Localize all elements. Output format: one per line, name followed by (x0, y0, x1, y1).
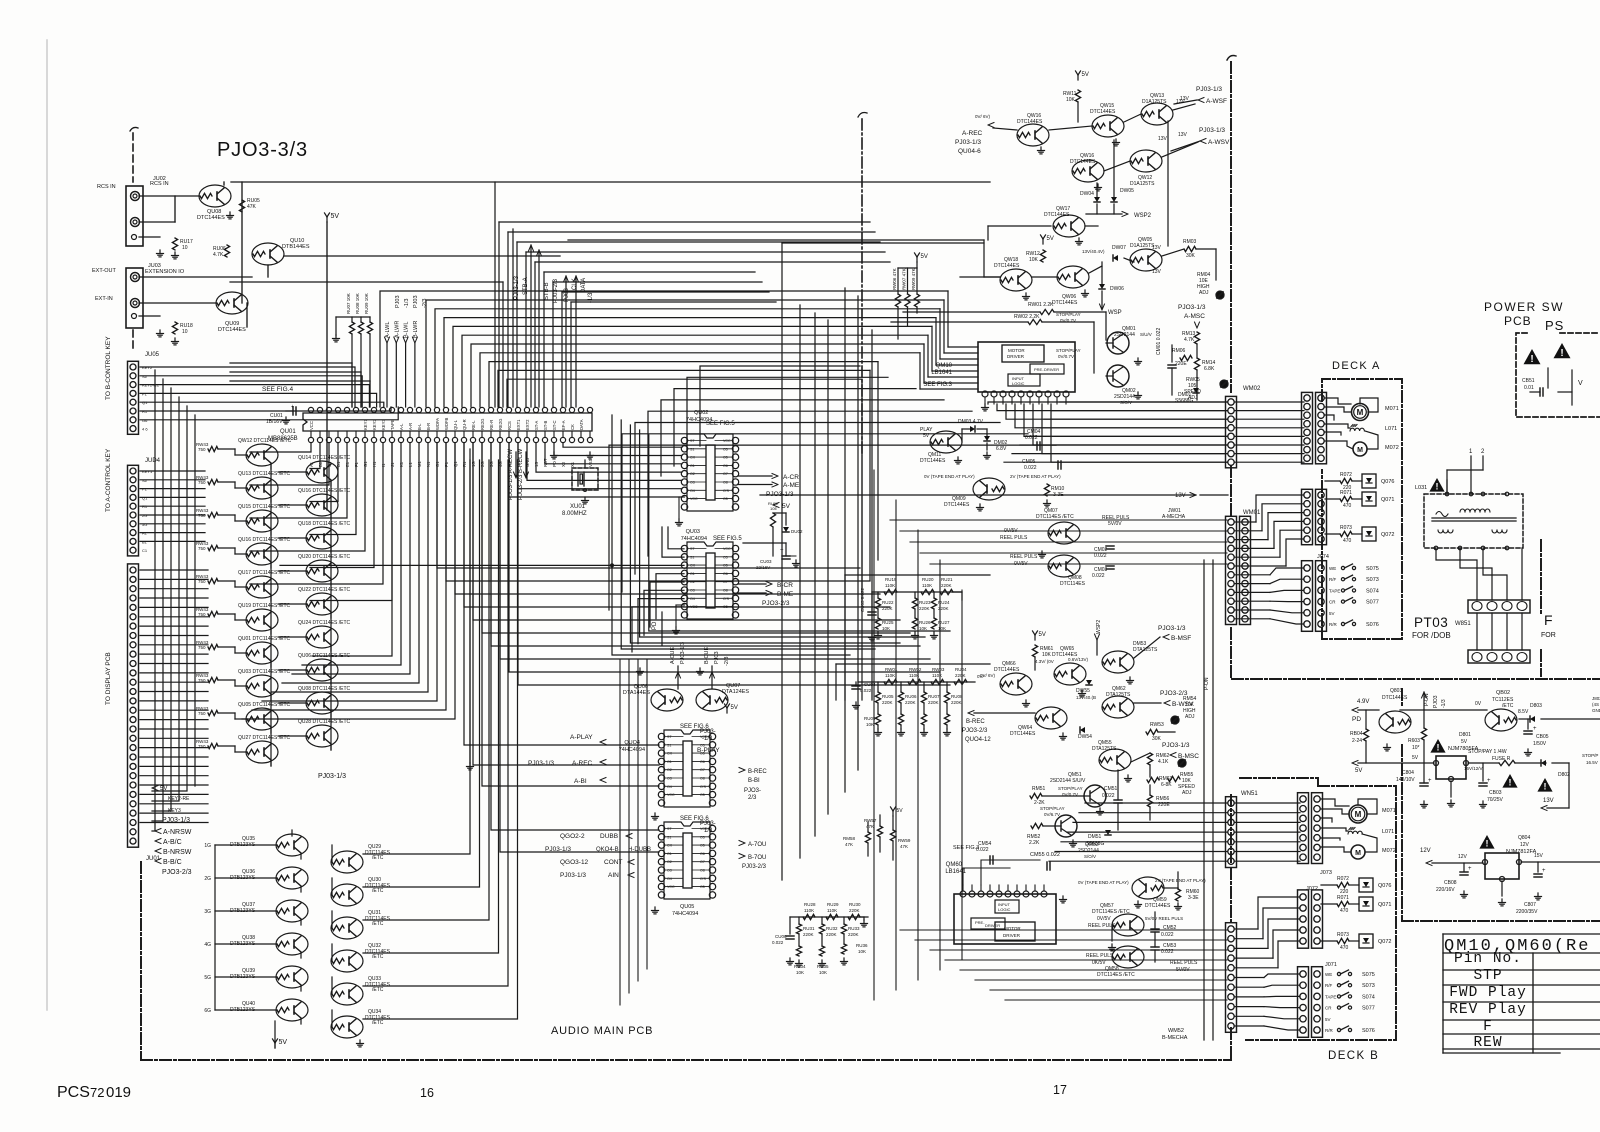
svg-text:STOP/PLAY: STOP/PLAY (1058, 786, 1083, 791)
svg-text:220K: 220K (928, 700, 939, 705)
svg-text:5V: 5V (1325, 1017, 1331, 1022)
svg-text:D801: D801 (1459, 732, 1471, 738)
svg-text:!: ! (1544, 782, 1547, 792)
svg-text:O6: O6 (723, 572, 728, 576)
svg-text:A-BI: A-BI (574, 778, 587, 785)
svg-text:DU02: DU02 (791, 529, 803, 534)
svg-text:Q071: Q071 (1381, 497, 1394, 503)
svg-text:DTC144ES: DTC144ES (1070, 159, 1096, 165)
svg-text:REEL PULS: REEL PULS (1010, 554, 1038, 560)
svg-text:ST-C: ST-C (552, 420, 557, 430)
svg-text:PCS: PCS (57, 1084, 90, 1101)
svg-text:10K: 10K (1042, 652, 1052, 658)
svg-text:DATA: DATA (579, 419, 584, 430)
svg-text:SEE FIG.3: SEE FIG.3 (923, 382, 952, 388)
svg-text:72: 72 (90, 1085, 104, 1100)
svg-text:WDFA: WDFA (435, 418, 440, 430)
svg-text:B-LWL: B-LWL (404, 322, 410, 338)
svg-text:4.7K: 4.7K (1184, 337, 1195, 343)
svg-text:750: 750 (198, 711, 206, 716)
svg-text:RU30: RU30 (849, 902, 861, 907)
svg-text:RW02 2.2K: RW02 2.2K (1014, 314, 1040, 320)
svg-text:5V: 5V (279, 1039, 288, 1046)
svg-text:DTC144ES: DTC144ES (944, 502, 970, 508)
svg-text:QM60: QM60 (946, 862, 963, 868)
svg-text:4.7K: 4.7K (213, 252, 224, 258)
svg-text:S073: S073 (1362, 983, 1375, 989)
svg-text:DTC114ES /ETC: DTC114ES /ETC (1036, 514, 1074, 520)
svg-text:ADJ: ADJ (1182, 790, 1192, 796)
svg-text:!: ! (1437, 743, 1440, 753)
svg-text:RW59: RW59 (898, 838, 911, 843)
svg-text:TAPE: TAPE (1325, 994, 1336, 999)
svg-text:220K: 220K (951, 700, 962, 705)
svg-text:10K: 10K (866, 722, 874, 727)
svg-text:1B/16V: 1B/16V (266, 419, 283, 425)
svg-text:S1: S1 (667, 835, 671, 839)
svg-text:QU24 DTC114ES /ETC: QU24 DTC114ES /ETC (298, 620, 351, 626)
svg-text:CM01 0.022: CM01 0.022 (1156, 328, 1162, 355)
svg-text:6G: 6G (204, 1008, 211, 1014)
svg-text:5V: 5V (921, 254, 928, 260)
svg-text:QU05: QU05 (680, 904, 694, 910)
svg-text:+: + (1487, 778, 1491, 784)
svg-text:S/U/V: S/U/V (1140, 332, 1152, 337)
svg-text:1/3: 1/3 (704, 828, 713, 834)
svg-text:220K: 220K (905, 700, 916, 705)
svg-text:B-MSF: B-MSF (1171, 635, 1191, 642)
svg-text:10*: 10* (1412, 745, 1420, 751)
svg-text:QU18 DTC114ES /ETC: QU18 DTC114ES /ETC (298, 521, 351, 527)
svg-text:TAPE: TAPE (390, 419, 395, 430)
svg-text:O5: O5 (723, 564, 728, 568)
svg-text:ST: ST (667, 735, 672, 739)
svg-text:5V: 5V (1039, 632, 1046, 638)
svg-text:0.01: 0.01 (1524, 385, 1534, 391)
svg-text:110K: 110K (804, 908, 814, 913)
svg-text:RE2G: RE2G (480, 419, 485, 430)
svg-text:Q076: Q076 (1378, 883, 1391, 889)
svg-text:/ETC: /ETC (372, 987, 384, 993)
svg-text:STB-B: STB-B (544, 282, 550, 300)
svg-text:A-CR: A-CR (783, 474, 799, 481)
svg-text:QU04-6: QU04-6 (958, 148, 981, 155)
svg-text:4.9V: 4.9V (1357, 699, 1369, 705)
svg-text:2-24: 2-24 (1352, 738, 1362, 744)
svg-text:S1: S1 (667, 743, 671, 747)
svg-text:0V: 0V (1475, 701, 1482, 707)
svg-text:O4: O4 (667, 877, 672, 881)
svg-text:0.022: 0.022 (860, 688, 872, 693)
svg-text:RU31: RU31 (803, 926, 815, 931)
svg-text:O'S: O'S (723, 489, 729, 493)
svg-text:PJO3-2/3 B-RECW: PJO3-2/3 B-RECW (518, 448, 524, 500)
svg-text:220K: 220K (849, 908, 860, 913)
svg-text:TO B-CONTROL KEY: TO B-CONTROL KEY (105, 336, 112, 400)
svg-text:STOP/PLAY: STOP/PLAY (1056, 348, 1081, 353)
svg-text:DTA125TS: DTA125TS (1133, 647, 1158, 653)
svg-text:8.5V: 8.5V (1518, 709, 1529, 715)
svg-text:EXT-IN: EXT-IN (95, 296, 113, 302)
svg-text:PJ03-1/3: PJ03-1/3 (955, 139, 981, 146)
svg-text:+: + (291, 404, 294, 410)
svg-text:RU29: RU29 (827, 902, 839, 907)
svg-text:QKO4-B: QKO4-B (596, 847, 619, 853)
svg-text:STOP/P: STOP/P (1582, 753, 1598, 758)
svg-text:RW53: RW53 (1150, 722, 1164, 728)
svg-text:JU05: JU05 (145, 352, 160, 358)
svg-text:DECK A: DECK A (1332, 360, 1381, 372)
svg-text:110K: 110K (922, 583, 932, 588)
svg-text:O5: O5 (723, 497, 728, 501)
svg-text:47K: 47K (247, 204, 257, 210)
svg-text:750: 750 (198, 579, 206, 584)
svg-text:R603: R603 (1408, 738, 1420, 744)
svg-text:13V/40.(B: 13V/40.(B (1076, 695, 1096, 700)
svg-text:B-PLAY: B-PLAY (697, 747, 720, 754)
svg-text:S077: S077 (1362, 1006, 1375, 1012)
svg-text:L031: L031 (1415, 485, 1427, 491)
svg-text:0V/5V: 0V/5V (1097, 916, 1111, 922)
svg-text:DTC144ES: DTC144ES (1044, 212, 1070, 218)
svg-text:0V/0.7V: 0V/0.7V (1058, 354, 1074, 359)
svg-text:DTC114ES: DTC114ES (1060, 581, 1086, 587)
svg-text:PJO3-3/3: PJO3-3/3 (217, 139, 308, 161)
svg-text:16V/12/V: 16V/12/V (1464, 766, 1483, 771)
svg-text:16: 16 (420, 1086, 434, 1100)
svg-text:PJ03-1/3: PJ03-1/3 (545, 846, 571, 853)
svg-text:PJ03-2/3: PJ03-2/3 (742, 864, 767, 870)
svg-text:S5688G: S5688G (1175, 398, 1193, 404)
svg-text:470: 470 (1340, 908, 1349, 914)
svg-text:PRE-: PRE- (1034, 367, 1044, 372)
svg-text:VCC: VCC (309, 421, 314, 430)
svg-text:5V: 5V (897, 808, 904, 814)
svg-text:PJ03: PJ03 (564, 288, 570, 302)
svg-text:S075: S075 (1366, 566, 1379, 572)
svg-text:VCC: VCC (723, 547, 731, 551)
svg-text:DTC144ES: DTC144ES (197, 215, 225, 221)
svg-text:0.6V/13V): 0.6V/13V) (1068, 657, 1089, 662)
svg-text:Q072: Q072 (1378, 939, 1391, 945)
svg-text:0.022: 0.022 (976, 847, 989, 853)
svg-text:M072: M072 (1385, 445, 1399, 451)
svg-text:M071: M071 (1385, 406, 1399, 412)
svg-text:RW57: RW57 (864, 818, 877, 823)
svg-text:O2: O2 (667, 860, 672, 864)
svg-text:P-ON: P-ON (1204, 677, 1210, 690)
svg-text:VSS: VSS (588, 458, 593, 467)
svg-text:-1/3: -1/3 (404, 299, 410, 308)
svg-text:47K: 47K (866, 824, 874, 829)
svg-text:DTC114ES /ETC: DTC114ES /ETC (1097, 972, 1135, 978)
svg-text:750: 750 (198, 447, 206, 452)
svg-text:2V (TAPE END AT PLAY): 2V (TAPE END AT PLAY) (1010, 474, 1061, 479)
svg-text:DTC144ES: DTC144ES (994, 263, 1020, 269)
svg-text:PJO3-1/3: PJO3-1/3 (1178, 304, 1206, 311)
svg-text:CB51: CB51 (1522, 378, 1535, 384)
svg-text:DTC144ES: DTC144ES (1382, 695, 1408, 701)
svg-text:L071: L071 (1382, 829, 1394, 835)
svg-text:DTC144ES: DTC144ES (920, 458, 946, 464)
svg-text:DW05: DW05 (1120, 188, 1134, 194)
svg-text:STOP/PAY 1 /4W: STOP/PAY 1 /4W (1468, 749, 1507, 755)
svg-text:PJ03: PJ03 (413, 295, 419, 308)
svg-text:PD: PD (652, 621, 658, 630)
svg-text:A-MECHA: A-MECHA (1162, 514, 1186, 520)
svg-text:DTC144ES: DTC144ES (1052, 300, 1078, 306)
svg-text:A-WSV: A-WSV (1208, 139, 1230, 146)
svg-text:B-NRSW: B-NRSW (163, 849, 192, 856)
svg-text:S/O/V: S/O/V (1084, 854, 1096, 859)
svg-text:M: M (1355, 810, 1362, 819)
svg-text:O5: O5 (723, 456, 728, 460)
svg-text:A-MSC: A-MSC (1184, 313, 1205, 320)
svg-text:PJ03-1/3: PJ03-1/3 (1199, 127, 1225, 134)
svg-text:O6: O6 (700, 852, 705, 856)
svg-text:13V: 13V (1152, 269, 1162, 275)
svg-text:750: 750 (198, 480, 206, 485)
svg-text:O3: O3 (690, 589, 695, 593)
svg-text:WM02: WM02 (1243, 386, 1261, 392)
svg-text:470: 470 (1340, 945, 1349, 951)
svg-text:JUD4: JUD4 (145, 458, 161, 464)
svg-text:D1A125TS: D1A125TS (1130, 181, 1155, 187)
svg-text:DTC144ES: DTC144ES (1090, 109, 1116, 115)
svg-text:220K: 220K (882, 700, 893, 705)
svg-text:10K: 10K (1066, 97, 1076, 103)
svg-text:CLK: CLK (572, 278, 578, 290)
svg-text:A-NRSW: A-NRSW (163, 829, 192, 836)
svg-text:CU03: CU03 (760, 559, 772, 564)
svg-text:13V: 13V (1543, 798, 1554, 804)
svg-text:DW07: DW07 (1112, 245, 1126, 251)
svg-text:RU20: RU20 (922, 577, 934, 582)
svg-text:DTC144ES: DTC144ES (994, 667, 1020, 673)
svg-text:RU05: RU05 (882, 694, 894, 699)
svg-text:A-WSF: A-WSF (1206, 98, 1227, 105)
svg-text:RM58: RM58 (843, 836, 856, 841)
svg-text:10K: 10K (858, 949, 866, 954)
svg-text:12V: 12V (1458, 854, 1468, 860)
svg-text:R/F: R/F (1329, 577, 1337, 582)
svg-text:B-BI: B-BI (748, 778, 760, 784)
svg-text:RU26: RU26 (919, 620, 931, 625)
svg-text:+: + (1533, 726, 1537, 732)
svg-text:EXT2: EXT2 (525, 419, 530, 430)
svg-text:A-REC: A-REC (572, 760, 593, 767)
svg-text:30K: 30K (1186, 253, 1196, 259)
svg-text:RU07 10K: RU07 10K (346, 293, 351, 314)
svg-text:12V: 12V (1520, 842, 1530, 848)
svg-text:TO A-CONTROL KEY: TO A-CONTROL KEY (105, 448, 112, 512)
svg-text:QU16 DTC114ES /ETC: QU16 DTC114ES /ETC (298, 488, 351, 494)
svg-text:O1: O1 (690, 572, 695, 576)
svg-text:DECK B: DECK B (1328, 1050, 1379, 1062)
svg-text:CM55 0.022: CM55 0.022 (1030, 852, 1060, 858)
svg-text:10K: 10K (919, 626, 927, 631)
svg-text:B-REC: B-REC (966, 719, 985, 725)
svg-text:AIN: AIN (608, 872, 619, 879)
svg-text:DW06: DW06 (1110, 286, 1124, 292)
svg-text:!: ! (1560, 348, 1563, 359)
svg-text:10K: 10K (882, 626, 890, 631)
svg-text:O'S: O'S (700, 877, 706, 881)
svg-text:+: + (1428, 778, 1432, 784)
svg-text:AUDIO MAIN PCB: AUDIO MAIN PCB (551, 1025, 653, 1037)
svg-text:R072: R072 (1340, 472, 1352, 478)
svg-text:RU25: RU25 (882, 620, 894, 625)
svg-text:DRIVER: DRIVER (985, 923, 1000, 928)
svg-text:!: ! (1486, 839, 1489, 849)
svg-text:O2: O2 (667, 768, 672, 772)
svg-text:QU14 DTC114ES /ETC: QU14 DTC114ES /ETC (298, 455, 351, 461)
svg-text:3G: 3G (204, 909, 211, 915)
svg-text:70/25V: 70/25V (1487, 797, 1504, 803)
svg-text:QU20 DTC114ES /ETC: QU20 DTC114ES /ETC (298, 554, 351, 560)
svg-text:RU28: RU28 (804, 902, 816, 907)
svg-text:DTA144ES: DTA144ES (623, 690, 650, 696)
svg-text:D1A125TS: D1A125TS (1142, 99, 1167, 105)
svg-text:POWER SW: POWER SW (1484, 300, 1564, 314)
svg-text:B-MECHA: B-MECHA (1162, 1035, 1188, 1041)
svg-text:QB02: QB02 (1496, 690, 1510, 696)
svg-text:VCC: VCC (667, 793, 675, 797)
svg-text:CK: CK (570, 424, 575, 430)
svg-text:O2: O2 (690, 472, 695, 476)
svg-text:DTC144ES: DTC144ES (1145, 903, 1171, 909)
svg-text:110K: 110K (827, 908, 837, 913)
svg-text:C807: C807 (1524, 902, 1536, 908)
svg-text:+: + (1468, 866, 1472, 872)
svg-text:0V/6.7V: 0V/6.7V (1044, 812, 1060, 817)
svg-text:Q803: Q803 (1390, 688, 1402, 694)
svg-text:R073: R073 (1340, 525, 1352, 531)
svg-text:RU19: RU19 (885, 577, 897, 582)
svg-text:0.022: 0.022 (1094, 553, 1107, 559)
svg-text:QU-R: QU-R (462, 419, 467, 430)
svg-text:PJO3-1/3: PJO3-1/3 (1158, 625, 1186, 632)
svg-text:A-R: A-R (408, 423, 413, 430)
svg-text:GND: GND (1592, 708, 1600, 713)
svg-text:110K: 110K (932, 673, 942, 678)
svg-text:2V (TAPE END AT PLAY): 2V (TAPE END AT PLAY) (1155, 878, 1206, 883)
svg-text:220K: 220K (826, 932, 837, 937)
svg-text:750: 750 (198, 744, 206, 749)
svg-text:74HC4094: 74HC4094 (619, 747, 645, 753)
svg-text:R/F: R/F (1325, 983, 1333, 988)
svg-text:XU01: XU01 (570, 504, 586, 510)
svg-text:WN51: WN51 (1241, 791, 1258, 797)
svg-text:13V/40.4V): 13V/40.4V) (1082, 249, 1105, 254)
svg-text:M071: M071 (1382, 808, 1396, 814)
svg-text:FOR: FOR (1541, 632, 1556, 639)
svg-text:5V: 5V (782, 503, 791, 510)
svg-text:R/R: R/R (1329, 622, 1338, 627)
svg-text:O3: O3 (667, 869, 672, 873)
svg-text:74HC4094: 74HC4094 (681, 536, 707, 542)
svg-text:PS: PS (1545, 318, 1564, 333)
svg-text:B-LWR: B-LWR (413, 321, 419, 338)
svg-text:RU23: RU23 (919, 600, 931, 605)
svg-text:PJO3-2/3: PJO3-2/3 (762, 600, 790, 607)
svg-text:PJ03-1/3: PJ03-1/3 (528, 760, 554, 767)
svg-text:A-ME: A-ME (783, 482, 800, 489)
svg-text:220K: 220K (848, 932, 859, 937)
svg-text:O4: O4 (690, 597, 695, 601)
svg-text:Pin No.: Pin No. (1454, 951, 1522, 967)
svg-text:5G: 5G (204, 975, 211, 981)
svg-text:PJ03-: PJ03- (700, 729, 716, 735)
svg-text:O5: O5 (700, 835, 705, 839)
svg-text:0.022: 0.022 (1102, 793, 1115, 799)
svg-text:2SD2144 S/U/V: 2SD2144 S/U/V (1050, 778, 1086, 784)
svg-text:CB05: CB05 (1536, 734, 1549, 740)
svg-text:FUSE R: FUSE R (1492, 756, 1511, 762)
svg-text:R/R: R/R (1325, 1028, 1334, 1033)
svg-text:A-L: A-L (399, 423, 404, 430)
svg-text:M: M (1357, 447, 1363, 454)
svg-text:0V (TAPE END AT PLAY): 0V (TAPE END AT PLAY) (924, 474, 975, 479)
svg-text:Q071: Q071 (1378, 902, 1391, 908)
svg-text:220K: 220K (919, 606, 930, 611)
svg-text:13V: 13V (1178, 132, 1188, 138)
svg-text:TAPE: TAPE (1329, 588, 1340, 593)
svg-text:S075: S075 (1362, 972, 1375, 978)
svg-text:Q804: Q804 (1518, 835, 1530, 841)
svg-text:CB08: CB08 (1444, 880, 1457, 886)
svg-text:DRIVER: DRIVER (1044, 367, 1059, 372)
svg-text:10: 10 (182, 329, 188, 335)
svg-text:VCC: VCC (723, 439, 731, 443)
svg-text:470: 470 (1343, 503, 1352, 509)
svg-text:DTC144ES: DTC144ES (1017, 119, 1043, 125)
svg-text:13V: 13V (1158, 136, 1168, 142)
svg-text:W851: W851 (1455, 621, 1471, 627)
svg-text:30K: 30K (1152, 736, 1162, 742)
svg-text:RW03: RW03 (932, 667, 945, 672)
svg-text:2200/35V: 2200/35V (1516, 909, 1538, 915)
svg-text:S074: S074 (1362, 994, 1375, 1000)
svg-text:PJ03: PJ03 (395, 295, 401, 308)
svg-text:O8: O8 (723, 481, 728, 485)
svg-text:PJO3-2/3: PJO3-2/3 (162, 869, 192, 876)
svg-text:4G: 4G (204, 942, 211, 948)
svg-text:5V: 5V (1329, 611, 1335, 616)
svg-text:S076: S076 (1366, 622, 1379, 628)
svg-text:O6: O6 (723, 464, 728, 468)
svg-text:PRE-: PRE- (975, 920, 985, 925)
svg-text:REW: REW (1473, 1035, 1502, 1051)
svg-text:17: 17 (1053, 1083, 1067, 1097)
svg-text:L071: L071 (1385, 426, 1397, 432)
svg-text:RU09 10K: RU09 10K (364, 293, 369, 314)
svg-text:C1: C1 (142, 548, 148, 553)
svg-text:5V: 5V (1461, 739, 1468, 745)
svg-text:5V/0V: 5V/0V (1108, 521, 1122, 527)
svg-text:O5: O5 (700, 793, 705, 797)
svg-text:+: + (1542, 868, 1546, 874)
svg-text:6.8V: 6.8V (996, 446, 1007, 452)
svg-text:J074: J074 (1317, 554, 1329, 560)
svg-text:MOTOR: MOTOR (1008, 348, 1025, 353)
svg-text:O'S: O'S (723, 597, 729, 601)
svg-text:/ETC: /ETC (1502, 703, 1514, 709)
svg-text:LOGIC: LOGIC (998, 907, 1011, 912)
svg-text:5V: 5V (1355, 768, 1362, 774)
svg-text:O'S: O'S (700, 785, 706, 789)
svg-text:O3: O3 (667, 777, 672, 781)
